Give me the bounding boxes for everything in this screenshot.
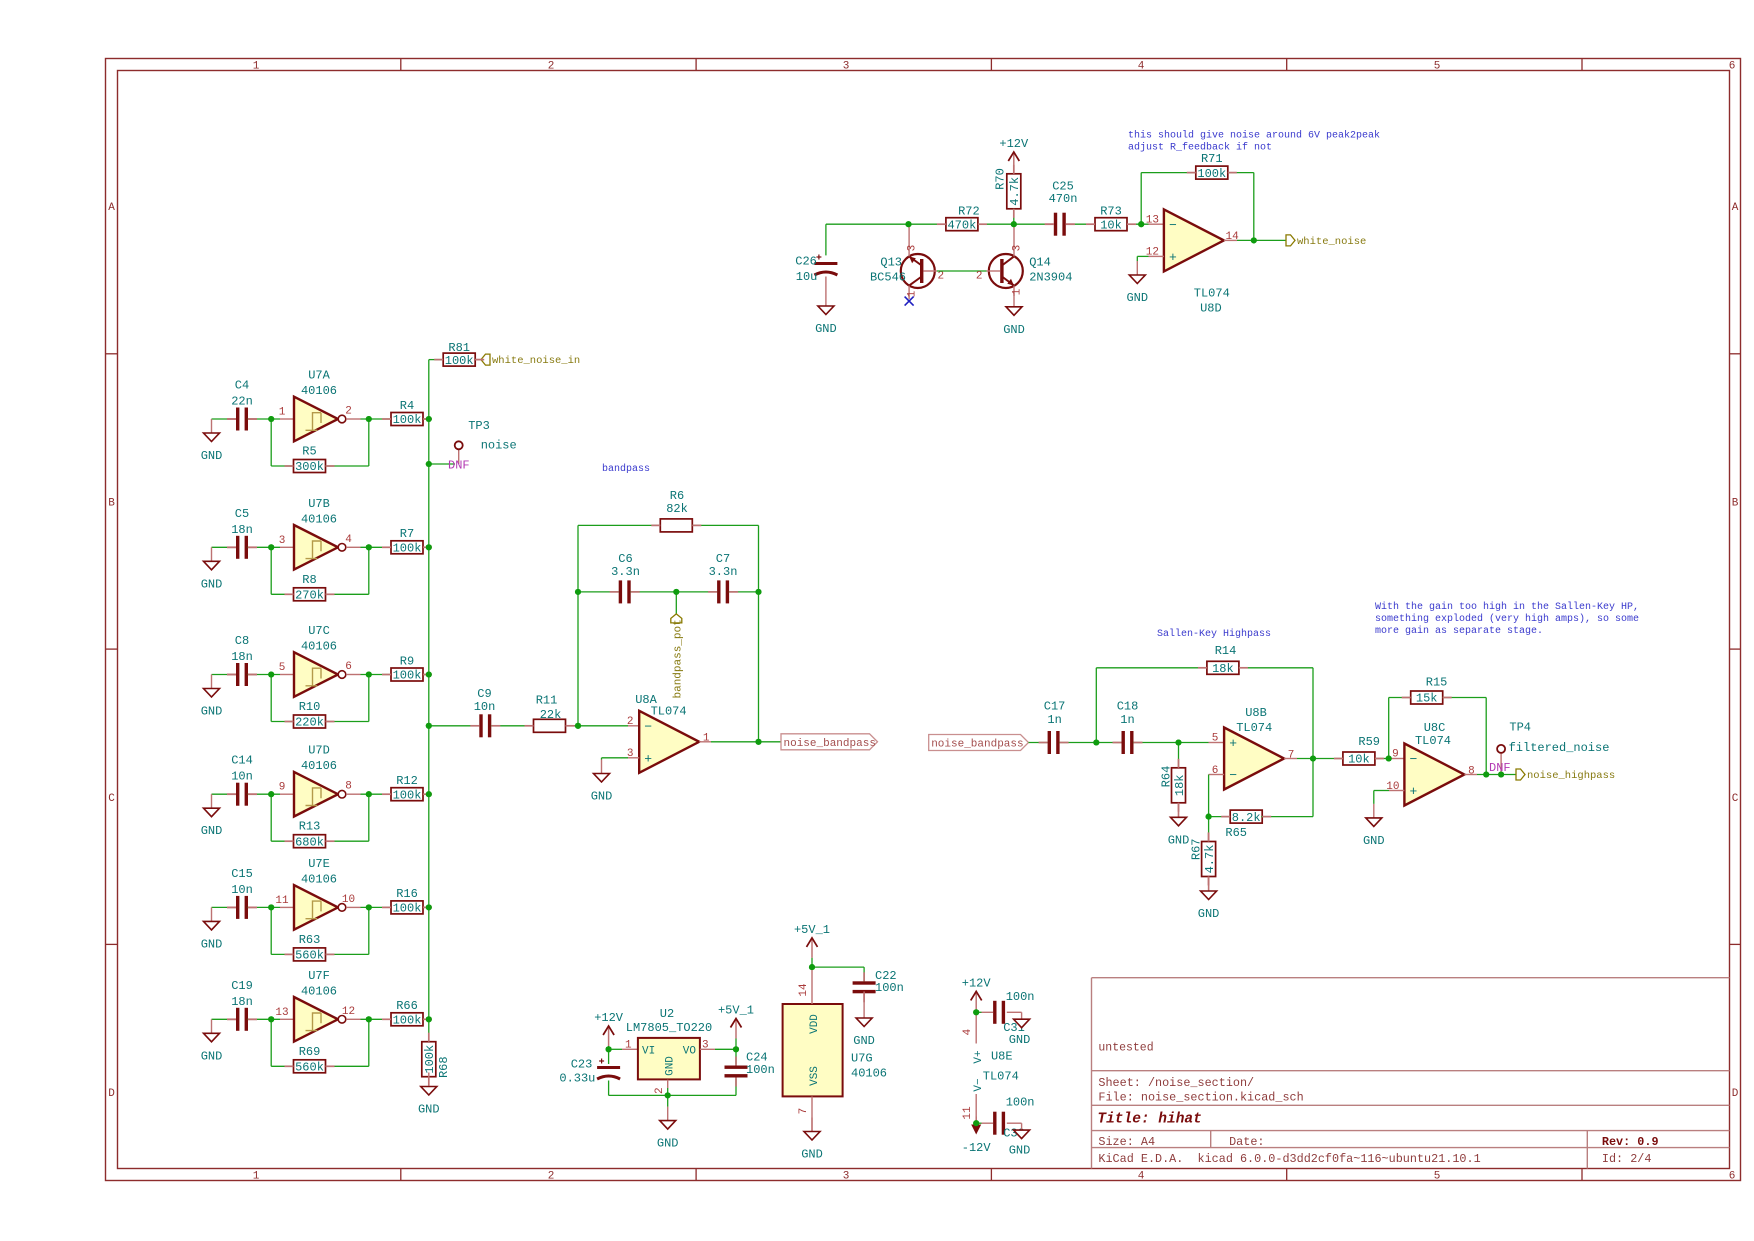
- wire: [429, 359, 444, 361]
- svg-text:C9: C9: [477, 687, 491, 701]
- svg-text:10u: 10u: [796, 270, 818, 284]
- ground (C31): [1007, 1012, 1031, 1047]
- wire: [1059, 742, 1122, 744]
- ground: [1198, 877, 1220, 921]
- op-amp U8B: [1212, 706, 1295, 789]
- svg-text:U7G: U7G: [851, 1052, 873, 1066]
- svg-text:C26: C26: [795, 255, 817, 269]
- svg-text:14: 14: [798, 983, 810, 997]
- wire: [271, 1065, 293, 1067]
- svg-text:100k: 100k: [423, 1045, 437, 1074]
- transistor Q14: [976, 224, 1073, 296]
- svg-text:+: +: [644, 751, 652, 766]
- wire: [1389, 758, 1404, 760]
- ground: [1363, 804, 1385, 848]
- wire: [270, 675, 272, 722]
- wire: [368, 547, 370, 594]
- wire: [609, 1048, 622, 1050]
- wire: [1374, 790, 1389, 792]
- resistor R70: [994, 168, 1023, 209]
- svg-text:untested: untested: [1098, 1042, 1153, 1055]
- svg-text:U8D: U8D: [1200, 302, 1222, 316]
- hierarchical label noise_highpass: [1516, 769, 1615, 782]
- note: noise comment: [1128, 130, 1380, 154]
- svg-text:100n: 100n: [1006, 990, 1035, 1004]
- svg-text:40106: 40106: [301, 984, 337, 998]
- wire: [326, 1065, 369, 1067]
- svg-text:TL074: TL074: [1236, 721, 1272, 735]
- svg-text:R5: R5: [302, 445, 316, 459]
- svg-text:VI: VI: [642, 1046, 655, 1058]
- wire: [346, 793, 360, 795]
- svg-text:8.2k: 8.2k: [1232, 811, 1261, 825]
- resistor R65: [1225, 810, 1262, 840]
- wire: [608, 1081, 610, 1096]
- junction: [1093, 739, 1099, 745]
- op-amp U8C: [1386, 721, 1474, 806]
- wire: [423, 546, 429, 548]
- svg-text:bandpass_pot: bandpass_pot: [672, 619, 684, 698]
- wire: [271, 953, 293, 955]
- junction: [426, 416, 432, 422]
- ground: [591, 760, 613, 804]
- inverter U7C: [279, 624, 352, 697]
- capacitor C5: [231, 507, 253, 559]
- svg-text:+: +: [1229, 736, 1237, 751]
- svg-text:KiCad E.D.A. kicad 6.0.0-d3dd: KiCad E.D.A. kicad 6.0.0-d3dd2cf0fa~116~…: [1098, 1152, 1480, 1166]
- capacitor C18: [1117, 700, 1139, 755]
- svg-text:noise_highpass: noise_highpass: [1527, 770, 1615, 782]
- junction: [426, 544, 432, 550]
- svg-text:100n: 100n: [875, 981, 904, 995]
- resistor R69: [294, 1045, 326, 1075]
- svg-text:R11: R11: [536, 694, 558, 708]
- title block: [1092, 978, 1730, 1169]
- junction: [575, 589, 581, 595]
- svg-text:GND: GND: [1198, 907, 1220, 921]
- resistor R64: [1159, 766, 1187, 803]
- wire: [361, 674, 392, 676]
- svg-text:R73: R73: [1100, 204, 1122, 218]
- wire: [280, 674, 294, 676]
- svg-text:A: A: [1732, 202, 1739, 214]
- wire: [212, 418, 237, 420]
- wire: [676, 591, 717, 593]
- wire: [1373, 791, 1375, 804]
- svg-text:1n: 1n: [1047, 713, 1061, 727]
- svg-text:13: 13: [275, 1007, 288, 1019]
- wire: [1485, 698, 1487, 773]
- svg-text:noise_bandpass: noise_bandpass: [784, 738, 876, 750]
- ground: [201, 794, 223, 838]
- wire: [270, 1019, 272, 1066]
- svg-text:18n: 18n: [231, 650, 253, 664]
- junction: [268, 1016, 274, 1022]
- svg-text:GND: GND: [1009, 1144, 1031, 1158]
- svg-text:+12V: +12V: [999, 137, 1029, 151]
- op-amp U8D: [1146, 209, 1239, 315]
- wire: [368, 419, 370, 466]
- wire: [1239, 667, 1313, 669]
- transistor Q13: [870, 224, 944, 299]
- wire: [1013, 209, 1015, 224]
- capacitor C32: [993, 1096, 1034, 1141]
- wire: [1209, 816, 1232, 818]
- svg-text:R4: R4: [400, 399, 414, 413]
- wire: [1136, 256, 1138, 261]
- wire: [212, 1018, 237, 1020]
- svg-text:680k: 680k: [295, 835, 324, 849]
- svg-text:1: 1: [253, 1171, 260, 1183]
- svg-text:220k: 220k: [295, 716, 324, 730]
- capacitor C6: [611, 552, 640, 603]
- junction: [366, 1016, 372, 1022]
- capacitor C7: [709, 552, 738, 603]
- svg-text:D: D: [108, 1088, 115, 1100]
- wire: [429, 463, 455, 465]
- svg-text:100n: 100n: [1006, 1096, 1035, 1110]
- svg-text:2: 2: [976, 271, 983, 283]
- inverter U7B: [279, 497, 353, 570]
- svg-text:TL074: TL074: [1415, 734, 1451, 748]
- junction: [973, 1009, 979, 1015]
- junction: [268, 416, 274, 422]
- junction: [606, 1046, 612, 1052]
- wire: [1137, 255, 1148, 257]
- svg-text:R70: R70: [994, 168, 1008, 190]
- wire: [270, 419, 272, 466]
- junction: [268, 791, 274, 797]
- wire: [667, 1080, 669, 1088]
- polarized capacitor C26: [795, 255, 837, 285]
- svg-text:5: 5: [279, 662, 286, 674]
- junction: [1175, 739, 1181, 745]
- wire: [1375, 758, 1389, 760]
- junction: [426, 791, 432, 797]
- power +12V: [962, 976, 992, 1011]
- junction: [1386, 755, 1392, 761]
- svg-text:U8E: U8E: [991, 1050, 1013, 1064]
- wire: [1209, 774, 1225, 776]
- junction: [426, 1016, 432, 1022]
- svg-text:40106: 40106: [301, 759, 337, 773]
- svg-text:R7: R7: [400, 527, 414, 541]
- wire: [692, 524, 758, 526]
- resistor R7: [391, 527, 423, 555]
- wire: [675, 592, 677, 614]
- svg-text:this should give noise around: this should give noise around 6V peak2pe…: [1128, 130, 1380, 142]
- wire: [826, 223, 946, 225]
- svg-text:2: 2: [654, 1087, 666, 1094]
- svg-text:9: 9: [1392, 749, 1399, 761]
- wire: [937, 270, 987, 272]
- svg-text:1: 1: [279, 407, 286, 419]
- svg-text:GND: GND: [801, 1148, 823, 1162]
- svg-text:bandpass: bandpass: [602, 463, 650, 475]
- svg-text:2: 2: [548, 1171, 555, 1183]
- svg-text:C23: C23: [571, 1058, 593, 1072]
- wire: [1224, 239, 1237, 241]
- svg-text:R10: R10: [299, 700, 321, 714]
- svg-text:+5V_1: +5V_1: [718, 1004, 754, 1018]
- svg-text:C4: C4: [235, 379, 249, 393]
- svg-text:−: −: [1409, 752, 1417, 767]
- wire: [271, 593, 293, 595]
- junction: [905, 221, 911, 227]
- svg-text:1: 1: [907, 290, 919, 297]
- svg-text:6: 6: [1729, 1171, 1736, 1183]
- note: sallen-key comment: [1375, 601, 1639, 637]
- svg-text:22k: 22k: [540, 708, 562, 722]
- wire: [735, 1049, 737, 1064]
- svg-text:300k: 300k: [295, 460, 324, 474]
- junction: [673, 589, 679, 595]
- hierarchical label bandpass_pot: [671, 614, 685, 699]
- capacitor C19: [231, 979, 253, 1031]
- inverter U7F: [275, 969, 355, 1042]
- svg-text:GND: GND: [1003, 323, 1025, 337]
- svg-text:4: 4: [345, 534, 352, 546]
- wire: [982, 1122, 994, 1124]
- svg-text:5: 5: [1434, 1171, 1441, 1183]
- svg-text:3.3n: 3.3n: [611, 565, 640, 579]
- svg-text:100k: 100k: [393, 413, 422, 427]
- svg-text:100n: 100n: [746, 1063, 775, 1077]
- wire: [667, 1088, 669, 1095]
- wire: [1388, 698, 1390, 759]
- svg-text:3: 3: [1012, 245, 1024, 252]
- svg-text:V+: V+: [973, 1050, 985, 1063]
- junction: [665, 1092, 671, 1098]
- svg-text:DNF: DNF: [448, 459, 470, 473]
- wire: [1228, 172, 1254, 174]
- wire: [578, 591, 619, 593]
- svg-text:15k: 15k: [1416, 692, 1438, 706]
- junction: [755, 739, 761, 745]
- capacitor C17: [1044, 700, 1066, 755]
- wire: [1209, 742, 1225, 744]
- wire: [863, 967, 865, 983]
- svg-text:R15: R15: [1426, 676, 1448, 690]
- junction: [755, 589, 761, 595]
- svg-text:VDD: VDD: [809, 1014, 821, 1034]
- svg-text:R13: R13: [299, 820, 321, 834]
- wire: [1095, 668, 1097, 743]
- wire: [608, 1049, 610, 1064]
- wire: [423, 793, 429, 795]
- svg-text:R66: R66: [396, 999, 418, 1013]
- ground: [853, 1004, 875, 1048]
- svg-text:C18: C18: [1117, 700, 1139, 714]
- capacitor C24: [725, 1051, 775, 1078]
- svg-text:C14: C14: [231, 754, 253, 768]
- svg-text:filtered_noise: filtered_noise: [1509, 741, 1610, 755]
- wire: [346, 546, 360, 548]
- resistor R68: [422, 1042, 451, 1078]
- svg-text:9: 9: [279, 782, 286, 794]
- svg-text:18n: 18n: [231, 995, 253, 1009]
- svg-text:C6: C6: [618, 552, 632, 566]
- wire: [975, 1010, 977, 1013]
- wire: [1140, 173, 1142, 225]
- wire: [361, 1018, 392, 1020]
- svg-text:GND: GND: [591, 790, 613, 804]
- svg-text:11: 11: [275, 895, 289, 907]
- svg-text:2: 2: [345, 406, 352, 418]
- junction: [973, 1120, 979, 1126]
- svg-text:3: 3: [843, 61, 850, 73]
- wire: [1284, 758, 1297, 760]
- junction dots overlay: [268, 221, 1504, 1126]
- wire: [212, 674, 237, 676]
- wire: [628, 725, 639, 727]
- svg-text:4.7k: 4.7k: [1008, 177, 1022, 206]
- svg-text:U7B: U7B: [308, 497, 330, 511]
- IC U7G 40106 power: [783, 983, 887, 1114]
- junction: [268, 904, 274, 910]
- svg-text:40106: 40106: [301, 872, 337, 886]
- svg-text:100k: 100k: [393, 669, 422, 683]
- wire: [271, 721, 293, 723]
- svg-text:R65: R65: [1225, 826, 1247, 840]
- svg-text:Q14: Q14: [1029, 256, 1051, 270]
- svg-text:6: 6: [1729, 61, 1736, 73]
- wire: [602, 757, 629, 759]
- wire: [270, 547, 272, 594]
- wire: [326, 721, 369, 723]
- svg-text:5: 5: [1212, 733, 1219, 745]
- capacitor C15: [231, 867, 253, 919]
- wire: [491, 725, 534, 727]
- svg-text:C7: C7: [716, 552, 730, 566]
- svg-text:BC546: BC546: [870, 271, 906, 285]
- ground: [418, 1073, 440, 1117]
- svg-text:Rev: 0.9: Rev: 0.9: [1602, 1135, 1659, 1149]
- junction: [426, 461, 432, 467]
- svg-text:4.7k: 4.7k: [1203, 845, 1217, 874]
- svg-text:40106: 40106: [301, 384, 337, 398]
- wire: [361, 793, 392, 795]
- wire: [212, 793, 237, 795]
- hierarchical label white_noise_in: [481, 354, 580, 367]
- svg-text:560k: 560k: [295, 1061, 324, 1075]
- svg-text:U7E: U7E: [308, 857, 330, 871]
- polarized capacitor C23: [559, 1058, 620, 1086]
- svg-text:Sheet: /noise_section/: Sheet: /noise_section/: [1098, 1076, 1254, 1090]
- no-connect X: [905, 297, 914, 306]
- svg-text:−: −: [644, 719, 652, 734]
- wire: [271, 840, 293, 842]
- svg-text:2N3904: 2N3904: [1029, 271, 1072, 285]
- resistor R13: [294, 820, 326, 850]
- svg-text:3: 3: [843, 1171, 850, 1183]
- svg-text:100k: 100k: [393, 542, 422, 556]
- svg-text:2: 2: [938, 271, 945, 283]
- svg-text:File: noise_section.kicad_sch: File: noise_section.kicad_sch: [1098, 1090, 1303, 1104]
- svg-text:7: 7: [798, 1108, 810, 1115]
- capacitor C9: [474, 687, 496, 737]
- svg-text:R81: R81: [448, 341, 470, 355]
- wire: [978, 223, 1053, 225]
- wire: [280, 793, 294, 795]
- wire: [1443, 697, 1487, 699]
- svg-text:GND: GND: [201, 577, 223, 591]
- wire: [699, 741, 711, 743]
- svg-text:6: 6: [345, 661, 352, 673]
- svg-text:GND: GND: [853, 1034, 875, 1048]
- wire: [1208, 775, 1210, 817]
- junction: [1011, 221, 1017, 227]
- svg-text:R9: R9: [400, 654, 414, 668]
- svg-text:With the gain too high in the: With the gain too high in the Sallen-Key…: [1375, 601, 1639, 613]
- resistor R5: [294, 445, 326, 475]
- ground: [1168, 803, 1190, 847]
- wire: [248, 418, 280, 420]
- svg-text:GND: GND: [815, 322, 837, 336]
- power +12V: [594, 1011, 624, 1046]
- svg-text:GND: GND: [1363, 834, 1385, 848]
- svg-text:TL074: TL074: [983, 1070, 1019, 1084]
- resistor R73: [1095, 204, 1127, 232]
- svg-text:8: 8: [1468, 765, 1475, 777]
- power -12V: [962, 1117, 992, 1156]
- svg-text:C17: C17: [1044, 700, 1066, 714]
- resistor R10: [294, 700, 326, 730]
- svg-text:GND: GND: [665, 1056, 677, 1076]
- resistor R63: [294, 933, 326, 963]
- svg-text:−: −: [1169, 218, 1177, 233]
- wire: [423, 674, 429, 676]
- svg-text:R64: R64: [1159, 766, 1173, 788]
- wire: [212, 906, 237, 908]
- hierarchical label white_noise: [1286, 235, 1366, 248]
- svg-text:U7A: U7A: [308, 369, 330, 383]
- wire: [578, 524, 660, 526]
- wire: [248, 793, 280, 795]
- svg-text:R67: R67: [1189, 838, 1203, 860]
- wire: [346, 1018, 360, 1020]
- svg-text:something exploded (very high: something exploded (very high amps), so …: [1375, 613, 1639, 625]
- wire: [1389, 790, 1404, 792]
- wire: [326, 593, 369, 595]
- wire: [811, 958, 813, 967]
- svg-text:R72: R72: [958, 204, 980, 218]
- svg-text:10n: 10n: [474, 700, 496, 714]
- svg-text:GND: GND: [657, 1137, 679, 1151]
- wire bus white_noise_in: [428, 360, 430, 1042]
- resistor R8: [294, 573, 326, 603]
- wire: [326, 840, 369, 842]
- junction: [1138, 221, 1144, 227]
- wire: [1141, 172, 1196, 174]
- ground (C32): [1007, 1123, 1031, 1157]
- wire: [1149, 223, 1164, 225]
- wire: [700, 1048, 715, 1050]
- wire: [368, 907, 370, 954]
- svg-text:GND: GND: [201, 1049, 223, 1063]
- svg-text:10: 10: [342, 894, 355, 906]
- wire: [361, 546, 392, 548]
- ground: [1003, 293, 1025, 337]
- wire: [280, 546, 294, 548]
- svg-text:18k: 18k: [1173, 774, 1187, 796]
- wire: [1389, 697, 1411, 699]
- svg-text:U7F: U7F: [308, 969, 330, 983]
- junction: [366, 791, 372, 797]
- wire: [711, 741, 781, 743]
- svg-text:GND: GND: [201, 705, 223, 719]
- svg-text:2: 2: [627, 716, 634, 728]
